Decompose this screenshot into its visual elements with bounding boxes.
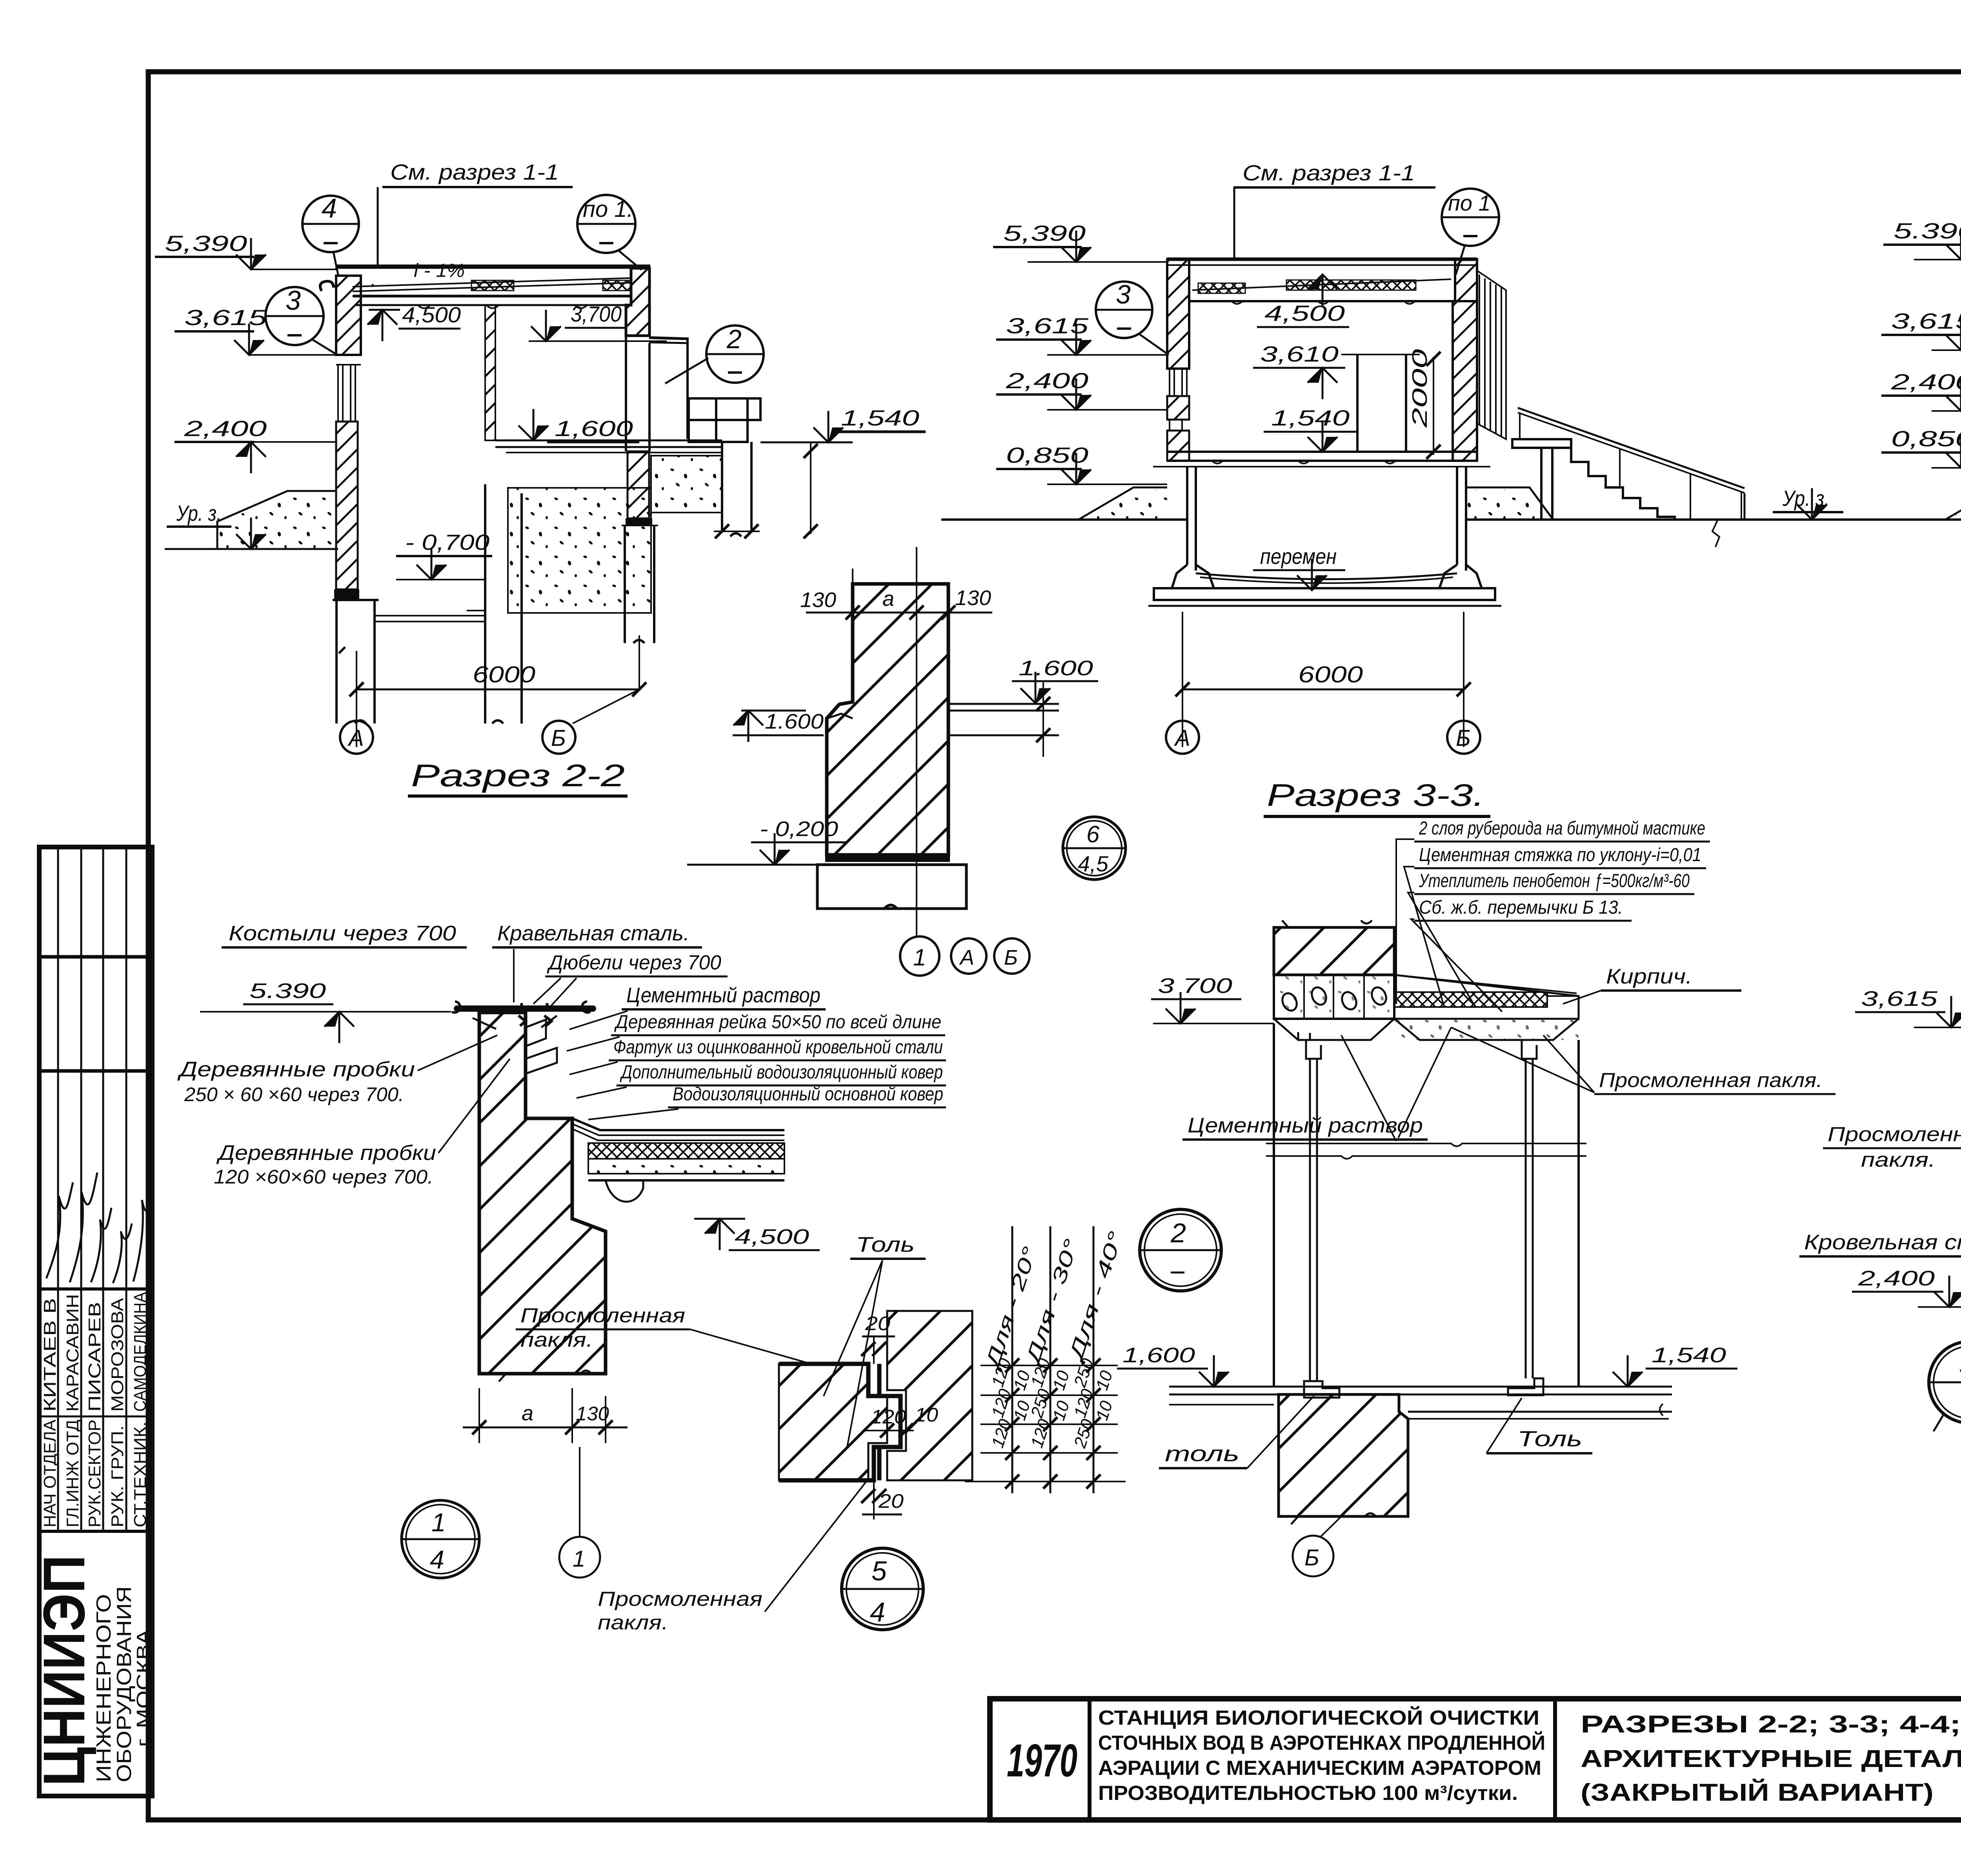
axis bubble B	[542, 689, 639, 754]
axis bubble B det2	[1293, 1516, 1341, 1576]
callout cement mortar det2	[1182, 1027, 1451, 1141]
axis bubble B 33	[1447, 721, 1480, 754]
svg-text:См. разрез 1-1: См. разрез 1-1	[1242, 160, 1415, 185]
svg-text:РУК. ГРУП.: РУК. ГРУП.	[108, 1425, 127, 1527]
level 1.600 right	[1012, 656, 1098, 703]
bubble 1-4 det14	[402, 1500, 479, 1578]
signatures scribbles	[46, 1172, 151, 1283]
svg-text:- 0,200: - 0,200	[760, 817, 838, 841]
svg-text:пакля.: пакля.	[1861, 1149, 1936, 1171]
det54 mid dims 120 10	[863, 1404, 938, 1438]
detail bubble 4	[302, 193, 359, 274]
institute name rotated	[31, 1555, 154, 1786]
callout apron steel	[569, 1037, 946, 1074]
parapet cap det14	[452, 1002, 593, 1029]
svg-text:4,500: 4,500	[402, 302, 461, 327]
svg-text:1,600: 1,600	[1122, 1343, 1195, 1367]
dim 6000 33	[1175, 612, 1471, 747]
det54 left hatched block	[779, 1364, 887, 1480]
concrete mass under floor	[651, 456, 722, 513]
det54 top dim 20	[861, 1312, 895, 1364]
left parapet cap 2-2	[320, 281, 336, 291]
svg-text:пакля.: пакля.	[598, 1611, 668, 1634]
svg-text:Костыли через 700: Костыли через 700	[229, 922, 456, 945]
parapets 33	[1167, 259, 1189, 369]
svg-text:2 слоя рубероида на битумной м: 2 слоя рубероида на битумной мастике	[1419, 818, 1705, 839]
svg-text:АЭРАЦИИ С МЕХАНИЧЕСКИМ АЭРАТОР: АЭРАЦИИ С МЕХАНИЧЕСКИМ АЭРАТОРОМ	[1098, 1757, 1541, 1780]
svg-text:1: 1	[431, 1508, 446, 1537]
left wall dark band and pier	[334, 589, 359, 599]
level 1.540 right	[760, 405, 926, 442]
svg-text:А: А	[1174, 725, 1190, 751]
roof layers right of wall det14	[572, 1118, 784, 1140]
svg-text:Просмоленная: Просмоленная	[1828, 1123, 1961, 1146]
see section 1-1 label 33	[1233, 160, 1435, 259]
callout Dyubeli cherez 700	[533, 951, 728, 1006]
ground line 33	[941, 518, 1188, 521]
svg-text:130: 130	[576, 1403, 609, 1425]
svg-text:Разрез 2-2: Разрез 2-2	[411, 758, 625, 793]
svg-text:Деревянные пробки: Деревянные пробки	[216, 1141, 436, 1165]
embankment right 33 with porch	[1466, 487, 1553, 520]
level 4.500 det14	[694, 1219, 820, 1250]
det54 right hatched block	[887, 1311, 972, 1480]
right floor slab lines	[950, 682, 1059, 757]
roof slab 2-2	[335, 267, 650, 308]
bubble 1 small det14	[559, 1537, 600, 1578]
svg-text:АРХИТЕКТУРНЫЕ ДЕТАЛИ.: АРХИТЕКТУРНЫЕ ДЕТАЛИ.	[1581, 1745, 1961, 1772]
callout krovelnaya stal det3	[1799, 1231, 1961, 1302]
svg-text:по 1.: по 1.	[583, 196, 633, 222]
svg-text:1,540: 1,540	[841, 405, 919, 430]
svg-text:РАЗРЕЗЫ 2-2; 3-3; 4-4;: РАЗРЕЗЫ 2-2; 3-3; 4-4;	[1581, 1711, 1961, 1738]
level 1.540 det2	[1613, 1343, 1737, 1387]
callout main waterproofing	[588, 1084, 946, 1120]
level -0.200 left	[687, 817, 847, 865]
right parapet 2-2	[626, 268, 649, 336]
level 0.850 33	[996, 443, 1167, 484]
svg-text:СТ.ТЕХНИК.: СТ.ТЕХНИК.	[131, 1422, 150, 1527]
svg-text:РУК.СЕКТОР: РУК.СЕКТОР	[85, 1420, 104, 1527]
svg-text:Просмоленная: Просмоленная	[520, 1304, 685, 1327]
svg-text:1,600: 1,600	[555, 416, 633, 441]
svg-text:Деревянная рейка 50×50 по всей: Деревянная рейка 50×50 по всей длине	[614, 1012, 941, 1033]
svg-text:5.390: 5.390	[1894, 218, 1961, 243]
right wall 33	[1453, 301, 1477, 461]
svg-text:Просмоленная: Просмоленная	[598, 1588, 762, 1611]
level 1.600 left	[733, 710, 824, 742]
svg-text:Цементная стяжка по уклону-i=0: Цементная стяжка по уклону-i=0,01	[1419, 845, 1701, 865]
mid floor slab 33	[1153, 452, 1490, 467]
det14 wall bottom break	[499, 1371, 591, 1382]
svg-text:3,610: 3,610	[1260, 342, 1339, 366]
svg-text:Толь: Толь	[856, 1233, 915, 1256]
svg-text:3 700: 3 700	[1158, 974, 1232, 998]
level 5.390	[155, 231, 336, 269]
bubble 5-4	[842, 1548, 923, 1630]
embankment left of wall	[217, 491, 336, 549]
svg-text:Просмоленная пакля.: Просмоленная пакля.	[1599, 1069, 1823, 1092]
svg-text:250 × 60 ×60 через 700.: 250 × 60 ×60 через 700.	[184, 1083, 404, 1105]
svg-text:6: 6	[1086, 821, 1100, 847]
frost table vertical lines	[1012, 1226, 1093, 1493]
svg-text:Водоизоляционный основной кове: Водоизоляционный основной ковер	[673, 1084, 943, 1105]
caption Razrez 2-2	[408, 758, 628, 796]
svg-text:А: А	[959, 946, 974, 969]
level 3.700 annex roof	[529, 302, 667, 341]
svg-text:1,540: 1,540	[1652, 1343, 1726, 1367]
svg-text:Разрез 3-3.: Разрез 3-3.	[1267, 778, 1484, 813]
level 1.600 annex	[518, 409, 639, 442]
svg-text:10: 10	[915, 1404, 938, 1426]
svg-text:3,700: 3,700	[571, 302, 622, 326]
embankment left 33	[1079, 487, 1167, 520]
svg-text:3,615: 3,615	[1891, 309, 1961, 333]
det54 bottom dim 20	[861, 1480, 904, 1520]
axis bubble A	[340, 721, 373, 754]
svg-text:6000: 6000	[473, 662, 535, 687]
svg-text:3: 3	[286, 285, 301, 316]
title block frame	[990, 1699, 1961, 1820]
brick pier right of wall 33	[1477, 271, 1506, 439]
svg-text:1: 1	[913, 944, 926, 971]
foundation tank 33	[1148, 467, 1501, 606]
detail bubble 3 33	[1096, 280, 1169, 355]
svg-text:2,400: 2,400	[184, 416, 267, 441]
level 4.500 interior	[367, 302, 461, 341]
svg-text:Б: Б	[1304, 1545, 1319, 1571]
level 3.610 33	[1253, 342, 1345, 399]
callout Kostyli cherez 700	[222, 922, 467, 947]
porch steps blocks	[689, 398, 760, 442]
svg-text:по 1: по 1	[1448, 191, 1491, 215]
svg-text:СТОЧНЫХ ВОД В АЭРОТЕНКАХ ПРОДЛ: СТОЧНЫХ ВОД В АЭРОТЕНКАХ ПРОДЛЕННОЙ	[1098, 1731, 1545, 1754]
tol left det2	[1159, 1396, 1314, 1468]
svg-text:1: 1	[573, 1546, 585, 1572]
svg-text:КАРАСАВИН: КАРАСАВИН	[63, 1294, 82, 1412]
annex floor slab	[495, 440, 722, 453]
svg-text:1970: 1970	[1007, 1735, 1077, 1787]
svg-text:4,500: 4,500	[1264, 301, 1345, 325]
svg-text:2: 2	[1170, 1218, 1186, 1248]
caption Razrez 3-3	[1264, 778, 1490, 816]
det2 level 3700	[1151, 974, 1274, 1023]
svg-text:перемен: перемен	[1260, 544, 1337, 569]
mid foundation pier	[467, 484, 522, 723]
svg-text:САМОДЕЛКИНА: САМОДЕЛКИНА	[131, 1292, 150, 1412]
leader to bubble 1 det14	[579, 1447, 580, 1536]
frost table small numbers	[988, 1356, 1117, 1451]
Ur.z 33	[1773, 486, 1843, 520]
svg-text:4: 4	[322, 193, 337, 224]
svg-text:См. разрез 1-1: См. разрез 1-1	[390, 160, 559, 184]
level 2.400	[175, 416, 336, 473]
level 5.390 33	[993, 221, 1167, 262]
svg-text:3: 3	[1959, 1350, 1961, 1380]
svg-text:Цементный раствор: Цементный раствор	[626, 983, 820, 1007]
det2 window frame right	[1508, 1040, 1543, 1395]
level 3.615 44	[1881, 309, 1961, 350]
svg-text:2: 2	[726, 324, 742, 354]
svg-text:Ур. з.: Ур. з.	[176, 501, 222, 525]
callout additional waterproofing	[577, 1062, 946, 1098]
level 3.615	[175, 305, 336, 355]
callout wooden plugs 120	[214, 1059, 510, 1188]
pier footing	[817, 865, 966, 909]
svg-text:пакля.: пакля.	[520, 1329, 593, 1351]
level 1.540 33	[1264, 405, 1357, 452]
prosmolennaya paklya label1	[516, 1304, 814, 1365]
bubble 6/4,5	[1063, 817, 1126, 880]
pier hatched body	[827, 584, 948, 855]
svg-text:0,850: 0,850	[1891, 426, 1961, 451]
svg-text:4: 4	[430, 1545, 444, 1574]
callout Krovelnaya stal	[492, 922, 702, 1002]
porch platform and stairs 33	[1512, 408, 1745, 547]
svg-text:Б: Б	[1456, 725, 1471, 751]
annex foundation column	[714, 442, 760, 538]
svg-text:ПИСАРЕВ: ПИСАРЕВ	[85, 1302, 104, 1412]
det2 bottom pier hatched	[1279, 1394, 1408, 1516]
svg-text:КИТАЕВ В: КИТАЕВ В	[40, 1298, 60, 1412]
prosmolennaya paklya label2	[598, 1478, 869, 1634]
det2 floor slab bottom	[1169, 1387, 1672, 1419]
dim 2000 door	[1408, 349, 1441, 459]
ground line 44	[1857, 518, 1961, 521]
detail bubble 3	[266, 285, 337, 355]
bubble 2 det2	[1140, 1209, 1221, 1291]
embankment left 44	[1945, 487, 1961, 520]
flashing lines on parapet left	[526, 1020, 557, 1074]
svg-text:130: 130	[800, 588, 836, 612]
see section 1-1 label	[378, 160, 573, 268]
svg-text:5.390: 5.390	[249, 979, 326, 1003]
svg-text:5,390: 5,390	[165, 231, 247, 256]
svg-text:Б: Б	[1004, 946, 1018, 969]
det2 top wall hatched	[1274, 927, 1394, 975]
svg-text:1.600: 1.600	[765, 710, 824, 733]
svg-text:(ЗАКРЫТЫЙ ВАРИАНТ): (ЗАКРЫТЫЙ ВАРИАНТ)	[1581, 1779, 1934, 1806]
svg-text:2,400: 2,400	[1891, 369, 1961, 394]
svg-text:1.600: 1.600	[1019, 656, 1093, 680]
detail bubble po1 33	[1442, 189, 1499, 274]
left wall window lines 33	[1170, 369, 1187, 431]
svg-text:г. МОСКВА: г. МОСКВА	[133, 1629, 154, 1747]
svg-text:3,615: 3,615	[1861, 987, 1938, 1011]
callout prosmolennaya paklya det2	[1451, 1027, 1835, 1094]
svg-text:МОРОЗОВА: МОРОЗОВА	[108, 1298, 127, 1412]
peremen level 33	[1253, 544, 1345, 590]
roof spec text lines	[1414, 818, 1710, 921]
svg-text:ПРОЗВОДИТЕЛЬНОСТЬЮ 100 м³/сутк: ПРОЗВОДИТЕЛЬНОСТЬЮ 100 м³/сутки.	[1098, 1782, 1518, 1805]
axis bubble A 33	[1166, 721, 1199, 754]
det2 sprinkled soffit band	[1394, 1019, 1579, 1040]
level 1.600 det2	[1117, 1343, 1229, 1387]
det2 wall faces vertical	[1274, 1023, 1579, 1387]
callout wooden plugs 250	[177, 1035, 497, 1105]
svg-text:130: 130	[955, 586, 991, 610]
frost table dim lines	[965, 1358, 1126, 1489]
svg-text:Кирпич.: Кирпич.	[1606, 965, 1692, 988]
detail bubble po1	[577, 195, 642, 270]
frost table rotated captions	[980, 1229, 1127, 1373]
svg-text:Фартук из оцинкованной кровель: Фартук из оцинкованной кровельной стали	[613, 1037, 943, 1058]
right wall 2-2	[628, 451, 649, 518]
svg-text:Деревянные пробки: Деревянные пробки	[177, 1058, 415, 1081]
level 5.390 det14	[200, 979, 451, 1043]
svg-text:3,615: 3,615	[184, 305, 267, 330]
roof insulation hatch patches	[471, 280, 514, 291]
level 3.615 33	[996, 313, 1167, 355]
svg-text:- 0,700: - 0,700	[405, 530, 489, 554]
tol right det2	[1486, 1398, 1592, 1453]
bubble 3 det3	[1929, 1342, 1961, 1431]
svg-text:А: А	[347, 725, 364, 751]
level 0.850 44	[1881, 426, 1961, 468]
svg-text:a: a	[522, 1402, 533, 1425]
pier notch line	[827, 714, 853, 718]
crutch hooks on cap	[518, 1003, 551, 1026]
svg-text:Толь: Толь	[1517, 1426, 1582, 1451]
left wall 2-2 hatched piers	[336, 276, 361, 355]
svg-text:5,390: 5,390	[1003, 221, 1086, 245]
bubbles 1 A B	[900, 936, 1030, 976]
svg-text:Б: Б	[551, 725, 566, 751]
svg-text:СТАНЦИЯ БИОЛОГИЧЕСКОЙ ОЧИСТКИ: СТАНЦИЯ БИОЛОГИЧЕСКОЙ ОЧИСТКИ	[1098, 1706, 1539, 1729]
pier top dim 130 a 130	[800, 569, 992, 627]
det14 dim a 130	[463, 1388, 628, 1443]
basement floor line	[376, 616, 485, 622]
level -0.700	[396, 530, 492, 580]
interior door 33	[1341, 354, 1420, 452]
level 3.615 det3	[1855, 987, 1961, 1027]
pier base dark strip	[825, 855, 950, 862]
dim 6000 bottom	[349, 635, 646, 747]
det2 break lines mid	[1266, 1143, 1586, 1159]
svg-text:ИНЖЕНЕРНОГО: ИНЖЕНЕРНОГО	[93, 1594, 115, 1782]
callout kirpich	[1563, 965, 1741, 1004]
svg-text:толь: толь	[1165, 1441, 1239, 1466]
stamp names column	[40, 1292, 150, 1527]
svg-text:2,400: 2,400	[1858, 1267, 1935, 1290]
title sheet name	[1581, 1711, 1961, 1806]
roof slab 33	[1167, 259, 1477, 304]
level Ur.z ground	[165, 501, 338, 549]
left wall window 2-2	[338, 365, 355, 422]
svg-text:5: 5	[871, 1556, 887, 1586]
callout cement mortar	[569, 983, 826, 1029]
level 2.400 33	[996, 368, 1167, 410]
svg-text:20: 20	[865, 1312, 890, 1334]
svg-text:Дюбели через 700: Дюбели через 700	[547, 951, 721, 974]
svg-text:3: 3	[1116, 280, 1131, 309]
svg-text:2000: 2000	[1408, 349, 1432, 428]
callout wooden batten	[567, 1012, 945, 1051]
svg-text:Дополнительный водоизоляционны: Дополнительный водоизоляционный ковер	[620, 1062, 943, 1083]
det2 lintel band with holes	[1274, 975, 1394, 1019]
right wall dark band and pier	[626, 518, 652, 525]
svg-text:4: 4	[870, 1597, 885, 1627]
det2 roof slab right	[1274, 975, 1579, 1019]
small vertical dim right	[804, 442, 818, 538]
detail bubble 2 annex	[665, 324, 764, 384]
roof hatch patches 33	[1198, 283, 1245, 293]
callout prosmolennaya det3	[1823, 1035, 1961, 1282]
det2 window frame left	[1304, 1040, 1339, 1398]
det54 thick boundary	[779, 1364, 900, 1480]
annex roof and wall	[649, 338, 689, 439]
svg-text:Сб. ж.б. перемычки Б 13.: Сб. ж.б. перемычки Б 13.	[1419, 897, 1623, 918]
svg-text:4,5: 4,5	[1078, 851, 1109, 876]
interior partition wall 2-2	[485, 305, 495, 440]
svg-text:ГЛ.ИНЖ ОТД: ГЛ.ИНЖ ОТД	[63, 1420, 82, 1527]
pier axis line	[916, 547, 917, 936]
svg-text:ОБОРУДОВАНИЯ: ОБОРУДОВАНИЯ	[113, 1586, 136, 1782]
svg-text:4,500: 4,500	[735, 1225, 809, 1249]
svg-text:120 ×60×60 через 700.: 120 ×60×60 через 700.	[214, 1166, 433, 1188]
title project description	[1098, 1706, 1545, 1805]
detail14 wall hatched	[479, 1013, 606, 1374]
left wall 33 lower piers	[1167, 396, 1189, 420]
svg-text:Кравельная сталь.: Кравельная сталь.	[497, 922, 689, 945]
svg-text:НАЧ ОТДЕЛА: НАЧ ОТДЕЛА	[40, 1419, 60, 1527]
svg-text:a: a	[882, 587, 894, 611]
svg-text:ЦНИИЭП: ЦНИИЭП	[31, 1555, 97, 1786]
svg-text:6000: 6000	[1298, 662, 1363, 687]
det2 slab soffit taper	[1274, 1019, 1579, 1040]
level 5.390 44	[1883, 218, 1961, 260]
level 2.400 44	[1881, 369, 1961, 411]
spec leaders	[1396, 839, 1502, 1012]
tol label det54	[824, 1233, 926, 1447]
svg-text:Утеплитель пенобетон ƒ=500кг/м: Утеплитель пенобетон ƒ=500кг/м³-60	[1419, 871, 1690, 891]
level 2.400 det3	[1852, 1267, 1961, 1307]
left margin stamp strip	[39, 847, 152, 1796]
svg-text:Кровельная сталь.: Кровельная сталь.	[1804, 1231, 1961, 1254]
svg-text:1,540: 1,540	[1271, 405, 1350, 430]
level 4.500 33	[1257, 274, 1349, 327]
svg-text:i - 1%: i - 1%	[414, 260, 465, 281]
svg-text:120: 120	[871, 1406, 906, 1428]
